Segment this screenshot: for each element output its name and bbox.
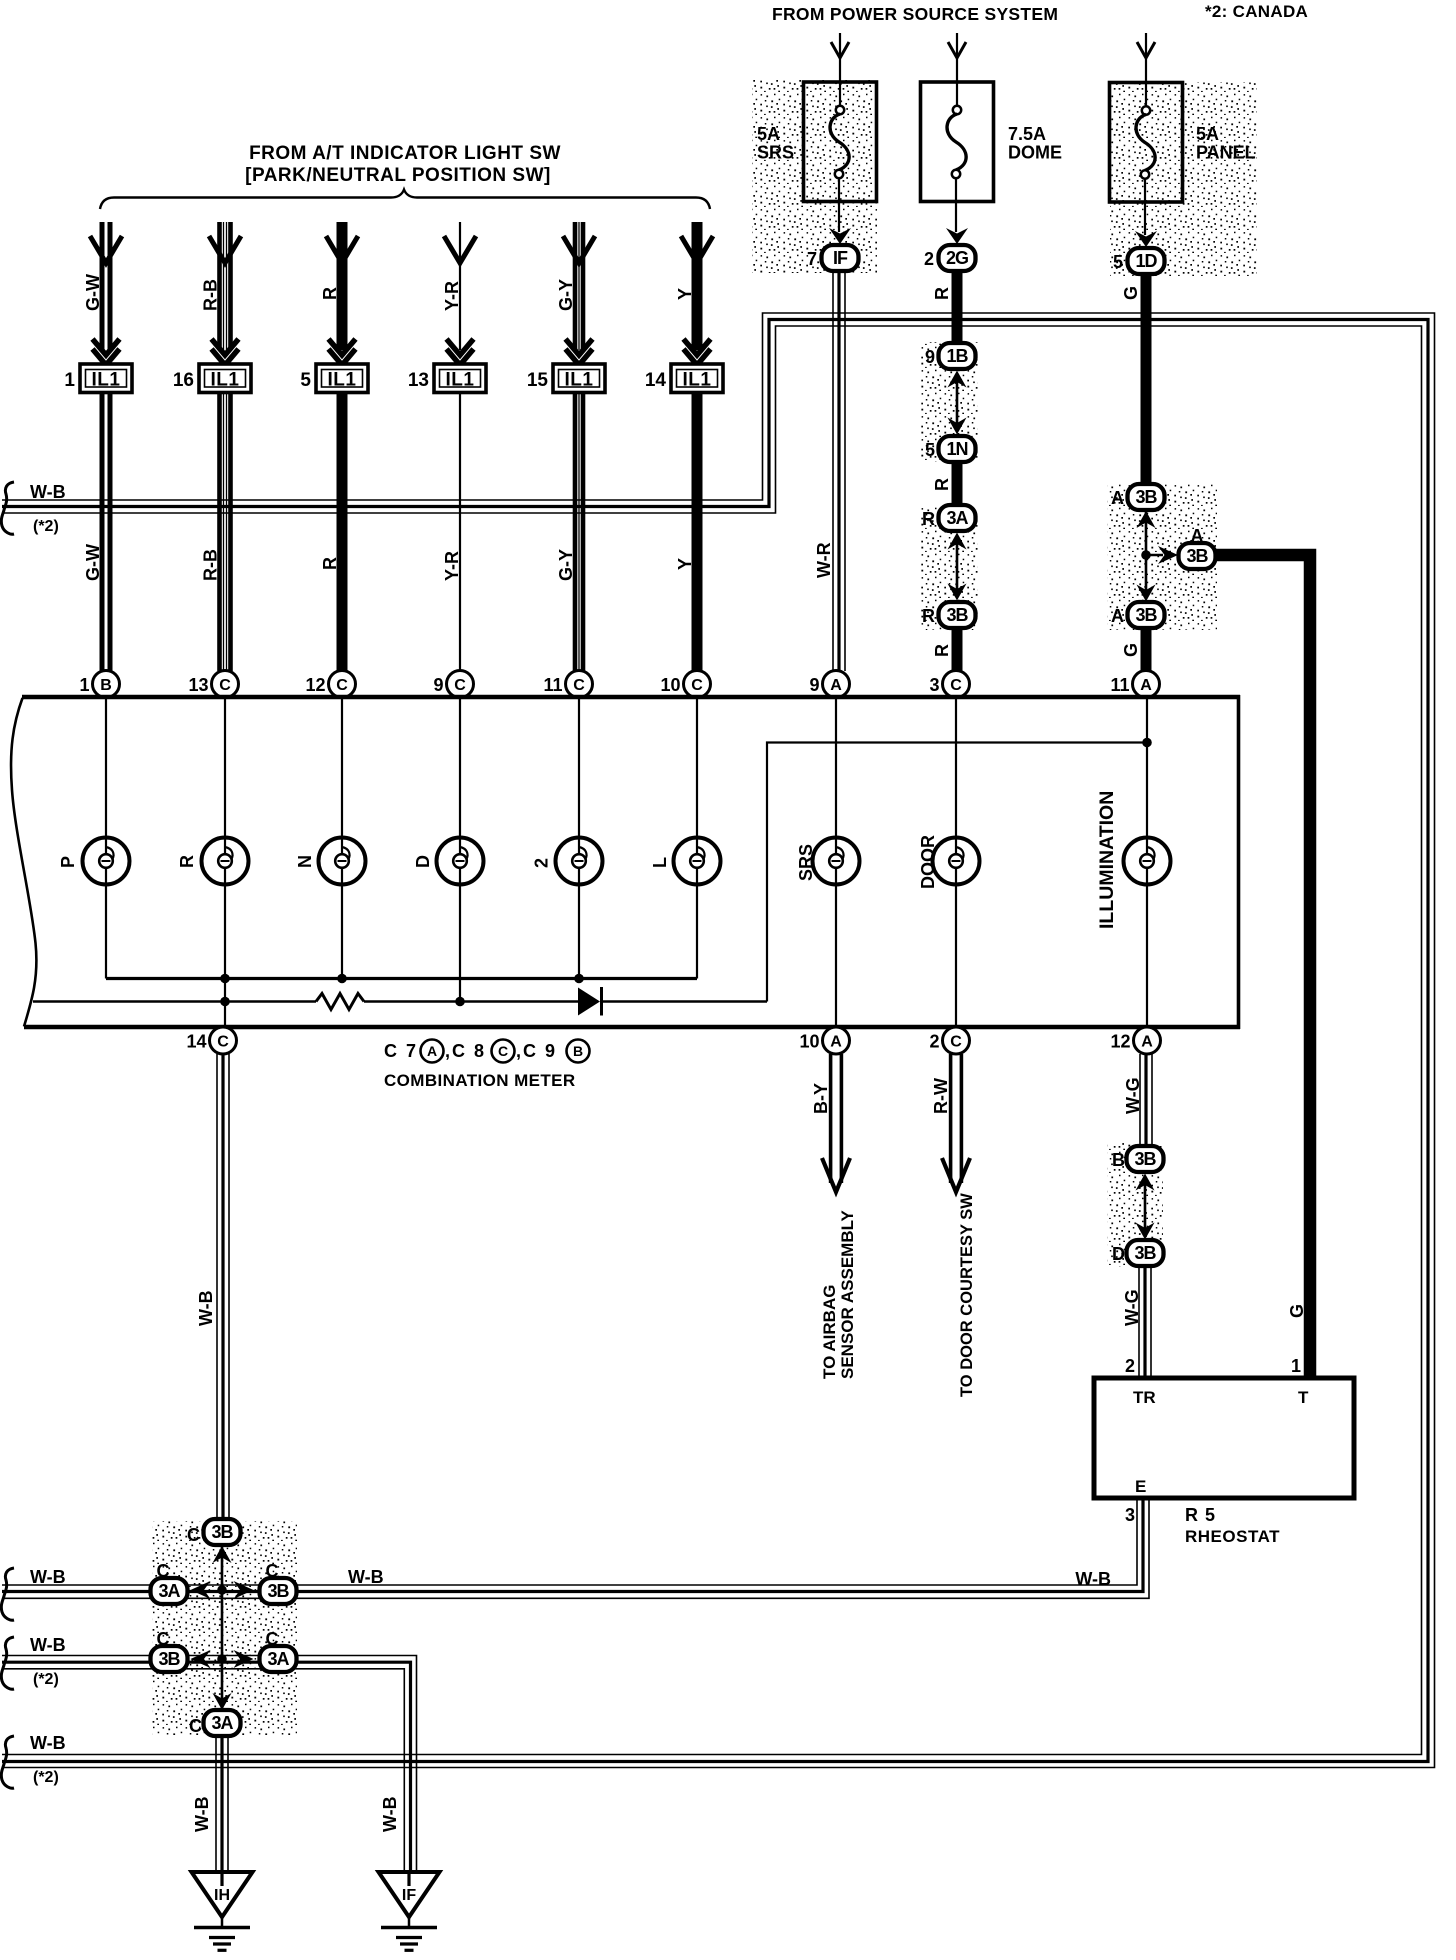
svg-text:IF: IF — [833, 248, 848, 268]
svg-text:A: A — [1141, 1034, 1153, 1051]
svg-text:3B: 3B — [946, 605, 968, 625]
svg-text:Y-R: Y-R — [442, 551, 462, 581]
svg-text:W-B: W-B — [30, 1567, 66, 1587]
svg-text:N: N — [295, 855, 315, 868]
svg-text:C: C — [217, 1034, 229, 1051]
svg-text:W-B: W-B — [196, 1290, 216, 1326]
svg-text:3B: 3B — [1135, 487, 1157, 507]
svg-text:IL1: IL1 — [683, 370, 712, 391]
svg-text:1: 1 — [79, 675, 89, 695]
svg-text:DOOR: DOOR — [918, 835, 938, 889]
svg-text:D: D — [1112, 1244, 1125, 1264]
svg-text:3A: 3A — [158, 1581, 180, 1601]
svg-text:C: C — [454, 677, 466, 694]
svg-text:1: 1 — [64, 370, 75, 391]
svg-text:(*2): (*2) — [33, 1769, 59, 1786]
svg-text:IL1: IL1 — [565, 370, 594, 391]
svg-text:R: R — [177, 855, 197, 868]
svg-text:TO AIRBAG: TO AIRBAG — [820, 1285, 839, 1379]
svg-text:G-Y: G-Y — [556, 549, 576, 581]
svg-text:TR: TR — [1133, 1388, 1156, 1407]
svg-text:R: R — [932, 478, 952, 491]
svg-text:W-G: W-G — [1123, 1077, 1143, 1114]
svg-text:G: G — [1121, 286, 1141, 300]
svg-text:R: R — [922, 509, 935, 529]
svg-text:C: C — [336, 677, 348, 694]
svg-text:A: A — [830, 1034, 842, 1051]
svg-text:A: A — [1111, 488, 1124, 508]
svg-text:10: 10 — [660, 675, 680, 695]
svg-text:1B: 1B — [946, 346, 968, 366]
svg-text:W-B: W-B — [1075, 1569, 1111, 1589]
svg-text:PANEL: PANEL — [1196, 143, 1256, 163]
svg-text:12: 12 — [305, 675, 325, 695]
svg-text:L: L — [650, 857, 670, 868]
svg-text:1N: 1N — [946, 439, 967, 459]
svg-text:C: C — [189, 1716, 202, 1736]
svg-text:,C 9: ,C 9 — [516, 1041, 557, 1061]
svg-text:3B: 3B — [158, 1649, 180, 1669]
svg-text:E: E — [1135, 1477, 1146, 1496]
svg-text:IL1: IL1 — [92, 370, 121, 391]
svg-text:R-B: R-B — [201, 549, 221, 581]
svg-text:T: T — [1298, 1388, 1309, 1407]
svg-text:W-B: W-B — [380, 1796, 400, 1832]
svg-text:2: 2 — [929, 1032, 939, 1052]
svg-text:COMBINATION METER: COMBINATION METER — [384, 1071, 576, 1090]
svg-text:R: R — [320, 287, 340, 300]
svg-text:Y: Y — [675, 288, 695, 300]
svg-text:3B: 3B — [1134, 1243, 1156, 1263]
svg-text:IH: IH — [214, 1887, 230, 1904]
svg-text:R: R — [932, 287, 952, 300]
svg-text:9: 9 — [925, 347, 935, 367]
svg-text:1: 1 — [1291, 1356, 1301, 1376]
svg-text:B: B — [100, 677, 112, 694]
svg-text:C: C — [157, 1561, 170, 1581]
svg-text:5A: 5A — [1196, 124, 1219, 144]
svg-text:W-G: W-G — [1122, 1289, 1142, 1326]
svg-text:G-Y: G-Y — [556, 279, 576, 311]
svg-text:D: D — [413, 855, 433, 868]
svg-text:C: C — [950, 1034, 962, 1051]
svg-text:TO DOOR COURTESY SW: TO DOOR COURTESY SW — [958, 1193, 976, 1397]
svg-text:C: C — [219, 677, 231, 694]
svg-text:3: 3 — [929, 675, 939, 695]
svg-text:Y: Y — [675, 558, 695, 570]
svg-text:[PARK/NEUTRAL POSITION SW]: [PARK/NEUTRAL POSITION SW] — [245, 165, 551, 186]
svg-text:11: 11 — [1110, 675, 1129, 695]
svg-text:A: A — [427, 1043, 437, 1059]
svg-text:5A: 5A — [757, 124, 780, 144]
svg-text:R: R — [922, 606, 935, 626]
svg-text:ILLUMINATION: ILLUMINATION — [1096, 791, 1118, 929]
svg-text:7: 7 — [807, 249, 817, 269]
svg-text:2: 2 — [532, 858, 552, 868]
svg-text:(*2): (*2) — [33, 518, 59, 535]
svg-text:P: P — [58, 856, 78, 868]
svg-text:R-B: R-B — [201, 279, 221, 311]
svg-text:C: C — [266, 1561, 279, 1581]
svg-text:3A: 3A — [946, 508, 968, 528]
svg-text:B-Y: B-Y — [811, 1083, 831, 1114]
svg-text:G-W: G-W — [83, 274, 103, 311]
svg-text:A: A — [830, 677, 842, 694]
svg-text:FROM POWER SOURCE SYSTEM: FROM POWER SOURCE SYSTEM — [772, 4, 1058, 24]
svg-text:1D: 1D — [1135, 251, 1157, 271]
svg-text:C: C — [950, 677, 962, 694]
svg-text:2: 2 — [924, 249, 934, 269]
svg-text:14: 14 — [645, 370, 667, 391]
svg-text:W-B: W-B — [30, 482, 66, 502]
svg-text:(*2): (*2) — [33, 1671, 59, 1688]
svg-text:W-B: W-B — [348, 1567, 384, 1587]
svg-text:W-B: W-B — [30, 1733, 66, 1753]
svg-text:,C 8: ,C 8 — [445, 1041, 486, 1061]
svg-text:G: G — [1287, 1304, 1307, 1318]
svg-text:R-W: R-W — [931, 1078, 951, 1114]
svg-text:R 5: R 5 — [1185, 1505, 1216, 1525]
svg-text:5: 5 — [300, 370, 311, 391]
svg-text:13: 13 — [408, 370, 429, 391]
svg-text:B: B — [1112, 1150, 1125, 1170]
svg-text:10: 10 — [799, 1032, 819, 1052]
svg-text:2G: 2G — [946, 248, 968, 268]
svg-text:5: 5 — [925, 440, 935, 460]
svg-text:14: 14 — [186, 1032, 206, 1052]
svg-text:W-B: W-B — [192, 1796, 212, 1832]
svg-text:12: 12 — [1110, 1032, 1130, 1052]
svg-text:IL1: IL1 — [446, 370, 475, 391]
svg-text:9: 9 — [809, 675, 819, 695]
svg-text:9: 9 — [433, 675, 443, 695]
svg-text:RHEOSTAT: RHEOSTAT — [1185, 1527, 1280, 1546]
svg-text:A: A — [1111, 606, 1124, 626]
svg-text:DOME: DOME — [1008, 143, 1062, 163]
svg-text:C: C — [187, 1525, 200, 1545]
svg-text:C: C — [498, 1043, 508, 1059]
svg-text:G: G — [1121, 643, 1141, 657]
svg-text:Y-R: Y-R — [442, 281, 462, 311]
svg-text:FROM A/T INDICATOR LIGHT SW: FROM A/T INDICATOR LIGHT SW — [249, 143, 561, 164]
svg-text:C: C — [573, 677, 585, 694]
svg-text:B: B — [573, 1043, 583, 1059]
svg-text:R: R — [320, 557, 340, 570]
svg-text:7.5A: 7.5A — [1008, 124, 1046, 144]
svg-text:SRS: SRS — [757, 143, 794, 163]
svg-text:C: C — [266, 1629, 279, 1649]
svg-text:3B: 3B — [1135, 605, 1157, 625]
svg-text:SRS: SRS — [796, 844, 816, 881]
svg-text:3B: 3B — [267, 1581, 289, 1601]
svg-text:3A: 3A — [211, 1713, 233, 1733]
svg-text:3B: 3B — [1134, 1149, 1156, 1169]
svg-text:C: C — [157, 1629, 170, 1649]
svg-text:16: 16 — [173, 370, 194, 391]
svg-text:3: 3 — [1125, 1505, 1135, 1525]
svg-text:SENSOR ASSEMBLY: SENSOR ASSEMBLY — [838, 1210, 857, 1379]
svg-text:W-R: W-R — [814, 542, 834, 578]
svg-text:A: A — [1191, 526, 1204, 546]
svg-text:11: 11 — [543, 675, 562, 695]
svg-text:W-B: W-B — [30, 1635, 66, 1655]
svg-text:IF: IF — [402, 1887, 416, 1904]
svg-text:5: 5 — [1113, 252, 1123, 272]
svg-text:IL1: IL1 — [328, 370, 357, 391]
svg-text:C: C — [691, 677, 703, 694]
svg-text:IL1: IL1 — [211, 370, 240, 391]
svg-text:15: 15 — [527, 370, 549, 391]
svg-text:*2: CANADA: *2: CANADA — [1205, 2, 1308, 21]
svg-text:R: R — [932, 644, 952, 657]
svg-text:C 7: C 7 — [384, 1041, 418, 1061]
svg-text:3B: 3B — [1186, 546, 1208, 566]
svg-text:13: 13 — [188, 675, 208, 695]
svg-text:2: 2 — [1125, 1356, 1135, 1376]
svg-text:3B: 3B — [211, 1522, 233, 1542]
svg-text:3A: 3A — [267, 1649, 289, 1669]
svg-text:G-W: G-W — [83, 544, 103, 581]
svg-text:A: A — [1140, 677, 1152, 694]
